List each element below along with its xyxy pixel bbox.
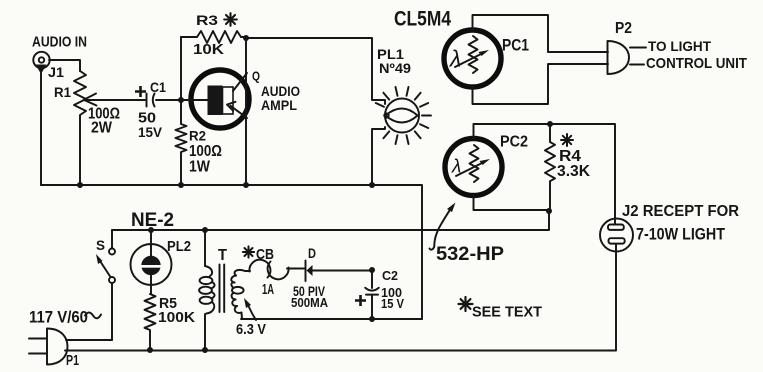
svg-text:7-10W LIGHT: 7-10W LIGHT bbox=[636, 225, 726, 244]
svg-text:Nº49: Nº49 bbox=[379, 60, 411, 76]
svg-text:CL5M4: CL5M4 bbox=[394, 8, 451, 31]
svg-text:J1: J1 bbox=[48, 64, 64, 80]
svg-text:S: S bbox=[96, 237, 105, 253]
svg-text:15 V: 15 V bbox=[381, 297, 405, 311]
svg-text:TO LIGHT: TO LIGHT bbox=[648, 38, 711, 54]
svg-text:T: T bbox=[218, 247, 227, 264]
svg-text:λ: λ bbox=[448, 46, 461, 72]
svg-text:R3: R3 bbox=[196, 12, 218, 28]
svg-text:532-HP: 532-HP bbox=[436, 244, 504, 265]
svg-text:C2: C2 bbox=[382, 269, 398, 283]
svg-text:AUDIO IN: AUDIO IN bbox=[32, 34, 87, 51]
svg-text:1W: 1W bbox=[189, 159, 211, 176]
svg-text:3.3K: 3.3K bbox=[557, 163, 590, 180]
svg-text:P1: P1 bbox=[66, 352, 79, 369]
svg-text:6.3 V: 6.3 V bbox=[236, 321, 266, 338]
svg-text:PC1: PC1 bbox=[502, 36, 529, 55]
svg-text:C1: C1 bbox=[150, 79, 166, 95]
svg-text:CB: CB bbox=[256, 246, 274, 263]
svg-text:PL2: PL2 bbox=[167, 238, 191, 255]
svg-text:NE-2: NE-2 bbox=[131, 210, 174, 231]
svg-text:2W: 2W bbox=[91, 120, 113, 137]
svg-text:500MA: 500MA bbox=[291, 296, 328, 310]
svg-text:R1: R1 bbox=[54, 84, 71, 100]
svg-text:15V: 15V bbox=[138, 124, 163, 140]
svg-text:100K: 100K bbox=[158, 309, 195, 326]
svg-text:100Ω: 100Ω bbox=[189, 143, 222, 160]
svg-text:λ: λ bbox=[451, 157, 461, 178]
svg-text:SEE TEXT: SEE TEXT bbox=[472, 304, 542, 321]
svg-text:Q: Q bbox=[252, 70, 260, 84]
svg-text:J2 RECEPT FOR: J2 RECEPT FOR bbox=[622, 203, 739, 220]
svg-text:117 V/60: 117 V/60 bbox=[29, 308, 88, 327]
svg-text:1A: 1A bbox=[262, 281, 274, 298]
svg-text:PC2: PC2 bbox=[500, 134, 528, 151]
svg-text:R2: R2 bbox=[189, 128, 206, 144]
svg-text:P2: P2 bbox=[615, 20, 632, 37]
svg-text:CONTROL UNIT: CONTROL UNIT bbox=[646, 55, 747, 72]
svg-text:10K: 10K bbox=[193, 41, 224, 58]
svg-text:D: D bbox=[308, 245, 316, 261]
svg-text:AMPL: AMPL bbox=[261, 97, 297, 113]
